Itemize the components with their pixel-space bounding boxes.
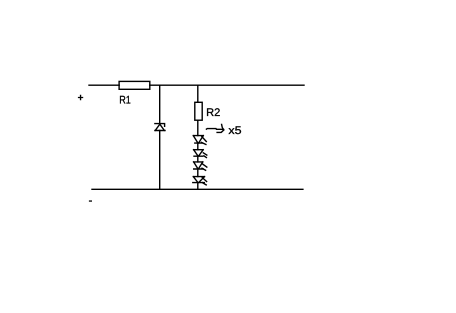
svg-text:R2: R2 (206, 107, 220, 119)
svg-text:R1: R1 (119, 95, 131, 107)
svg-text:x5: x5 (228, 125, 241, 137)
